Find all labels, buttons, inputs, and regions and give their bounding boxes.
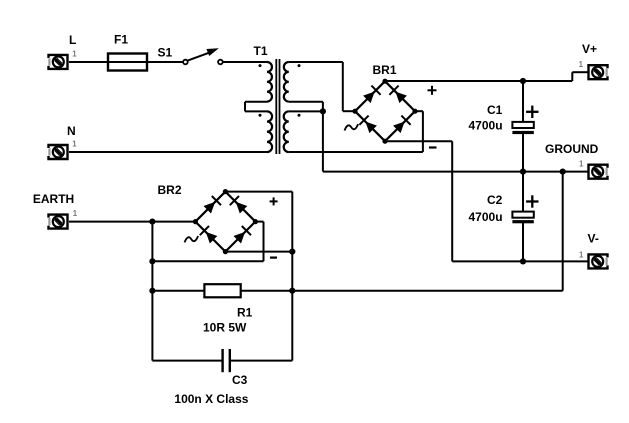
wire V- rail to V- terminal <box>452 260 588 262</box>
wire C2 bottom lead <box>522 223 524 262</box>
wire T1 secondary top to drop <box>289 61 343 63</box>
BR1 - polarity <box>429 146 437 148</box>
svg-text:T1: T1 <box>254 44 268 58</box>
capacitor C1 (electrolytic) <box>512 122 533 128</box>
wire BR1 + output rail <box>385 80 572 82</box>
svg-text:C1: C1 <box>487 103 503 117</box>
T1 phase dots <box>259 64 262 67</box>
junction R1 / BR2 bus <box>289 288 295 294</box>
terminal L (screw connector) <box>49 55 68 69</box>
svg-text:R1: R1 <box>237 305 253 319</box>
wire EARTH terminal to BR2 AC left <box>69 221 195 223</box>
svg-text:1: 1 <box>579 250 584 259</box>
BR1 + polarity <box>428 89 437 91</box>
T1 secondary winding lower <box>284 111 289 152</box>
svg-text:4700u: 4700u <box>469 119 503 133</box>
svg-text:V+: V+ <box>582 42 597 56</box>
switch S1 <box>183 60 188 65</box>
svg-text:BR2: BR2 <box>158 183 182 197</box>
wire center tap link <box>322 102 324 112</box>
BR2 diode left-to-top <box>204 202 216 214</box>
BR1 diode left-to-top <box>363 92 375 104</box>
wire into BR1 AC left <box>343 110 355 112</box>
transformer T1 core <box>275 59 277 154</box>
resistor R1 <box>204 284 240 297</box>
BR2 AC sine mark <box>185 236 199 242</box>
wire C2 top lead <box>522 172 524 212</box>
BR2 - polarity <box>270 257 277 259</box>
svg-text:10R 5W: 10R 5W <box>203 321 247 335</box>
wire BR2 + output <box>225 191 292 193</box>
svg-text:GROUND: GROUND <box>545 142 599 156</box>
svg-text:BR1: BR1 <box>373 63 397 77</box>
T1 secondary winding upper <box>284 62 289 102</box>
terminal V+ (screw connector) <box>589 65 608 79</box>
wire T1 primary winding jog bottom <box>245 110 267 112</box>
wire BR2 AC right stub <box>255 221 263 223</box>
svg-text:L: L <box>69 33 76 47</box>
svg-text:V-: V- <box>588 232 599 246</box>
T1 primary winding upper <box>267 62 272 102</box>
svg-text:1: 1 <box>579 60 584 69</box>
wire drop to BR1 left node <box>342 62 344 111</box>
wire ground to earth-lift network drop <box>562 172 564 291</box>
wire T1 secondary bottom to riser <box>289 151 423 153</box>
svg-text:100n X Class: 100n X Class <box>174 392 248 406</box>
svg-text:N: N <box>67 124 76 138</box>
wire C1 bottom lead <box>522 134 524 172</box>
BR2 + polarity <box>270 200 278 202</box>
wire BR1 - output <box>385 140 452 142</box>
svg-text:1: 1 <box>72 140 77 149</box>
wire into V+ terminal <box>572 71 588 73</box>
svg-text:1: 1 <box>72 50 77 59</box>
bridge rectifier BR1 body <box>355 81 415 141</box>
wire S1 to T1 primary top <box>223 61 267 63</box>
wire C3 left lead <box>152 360 222 362</box>
BR2 diode right-to-top <box>236 202 248 214</box>
wire T1 primary winding jog vertical <box>244 102 246 112</box>
wire T1 secondary upper bottom to center tap <box>289 101 323 103</box>
wire earth bus vertical <box>151 222 153 361</box>
terminal V- (screw connector) <box>589 254 608 268</box>
junction T1 center tap <box>320 108 326 114</box>
T1 primary winding lower <box>267 111 272 152</box>
terminal GROUND (screw connector) <box>589 165 608 179</box>
wire BR2 output bus vertical <box>291 192 293 361</box>
wire center tap down to ground rail <box>322 111 324 171</box>
svg-text:C3: C3 <box>232 373 248 387</box>
wire R1 right lead to drop <box>241 290 563 292</box>
junction V- / C2 <box>520 258 526 264</box>
svg-text:1: 1 <box>579 160 584 169</box>
BR1 node pins <box>382 79 387 84</box>
wire C3 right lead <box>230 360 292 362</box>
svg-text:4700u: 4700u <box>469 210 503 224</box>
BR2 diode bottom-to-left <box>206 232 218 244</box>
wire into BR1 AC right <box>415 110 423 112</box>
wire R1 left lead <box>152 290 204 292</box>
svg-text:1: 1 <box>73 209 78 218</box>
wire BR1 - drop to V- rail <box>451 141 453 261</box>
BR1 diode bottom-to-right <box>393 122 405 134</box>
wire riser to BR1 right node <box>422 111 424 152</box>
BR2 diode bottom-to-right <box>234 232 246 244</box>
terminal EARTH (screw connector) <box>49 215 68 229</box>
wire BR2 AC right to earth bus <box>152 260 263 262</box>
BR1 diode right-to-top <box>395 92 407 104</box>
wire V+ step up <box>571 72 573 81</box>
svg-text:S1: S1 <box>158 45 173 59</box>
wire ground rail to GROUND terminal <box>323 171 588 173</box>
BR1 diode bottom-to-left <box>365 122 377 134</box>
capacitor C3 (X class) <box>221 349 223 372</box>
BR2 node pins <box>223 189 228 194</box>
svg-text:C2: C2 <box>487 193 503 207</box>
wire BR2 AC right drop <box>263 222 265 262</box>
fuse F1 <box>108 54 147 71</box>
junction BR2 - node <box>289 249 295 255</box>
wire N terminal to T1 primary bottom <box>69 151 267 153</box>
junction BR1+ / C1 <box>520 78 526 84</box>
C1 + polarity <box>526 111 538 113</box>
wire C1 top lead <box>522 81 524 122</box>
svg-text:EARTH: EARTH <box>33 192 74 206</box>
wire T1 secondary lower top to center tap <box>289 110 323 112</box>
junction earth bus / R1 <box>149 288 155 294</box>
wire L terminal to fuse F1 to switch S1 <box>69 61 183 63</box>
junction ground / earth-lift <box>560 169 566 175</box>
C2 + polarity <box>526 200 538 202</box>
bridge rectifier BR2 body <box>195 192 255 252</box>
wire T1 primary winding jog top <box>245 101 267 103</box>
capacitor C2 (electrolytic) <box>512 212 533 218</box>
wire BR2 - output <box>225 251 292 253</box>
junction ground / C1-C2 <box>520 169 526 175</box>
BR1 AC sine mark <box>345 124 359 130</box>
junction EARTH node <box>149 219 155 225</box>
terminal N (screw connector) <box>49 145 68 159</box>
svg-text:F1: F1 <box>114 32 128 46</box>
junction earth bus / BR2 AC <box>149 258 155 264</box>
